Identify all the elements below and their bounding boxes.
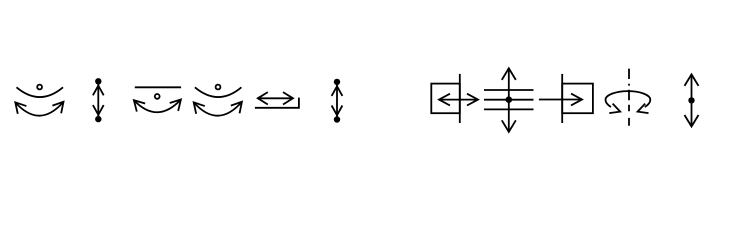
symbol 8 vertical arrow xyxy=(508,68,510,132)
dot-arrow symbol 2 up head xyxy=(93,86,104,96)
symbol 5 bracket xyxy=(255,98,299,108)
dot-arrow symbol 6 top dot xyxy=(334,79,340,85)
rocking symbol 1 cradle arc xyxy=(17,87,64,97)
symbol 8 line 2 xyxy=(484,99,534,101)
rocking symbol 4 curved double arrow xyxy=(194,102,242,116)
symbol 10 rotation loop xyxy=(606,91,651,107)
symbol 3 curved double arrow xyxy=(134,100,181,113)
symbol 11 dot xyxy=(688,97,694,103)
symbol 8 center dot xyxy=(506,96,513,103)
symbol 5 double arrow xyxy=(258,97,293,99)
symbol 7 box xyxy=(431,84,460,114)
symbol 3 top line xyxy=(135,86,181,88)
dot-arrow symbol 2 shaft xyxy=(97,81,99,119)
symbol 7 double arrow xyxy=(439,99,478,101)
rocking symbol 1 pivot circle xyxy=(37,85,42,90)
symbol 8 line 1 xyxy=(484,89,534,91)
dot-arrow symbol 2 down head xyxy=(93,105,104,115)
symbol 3 pivot circle xyxy=(155,94,160,99)
dot-arrow symbol 2 top dot xyxy=(95,78,101,84)
symbol 9 arrow xyxy=(539,99,582,101)
dot-arrow symbol 6 up head xyxy=(332,86,343,96)
symbol 9 vertical line xyxy=(561,74,563,123)
dot-arrow symbol 2 bottom dot xyxy=(95,116,101,122)
symbol 9 box xyxy=(562,84,593,114)
dot-arrow symbol 6 down head xyxy=(332,106,343,116)
rocking symbol 1 curved double arrow xyxy=(15,102,63,116)
rocking symbol 4 pivot circle xyxy=(216,85,221,90)
symbol 11 arrow shaft xyxy=(691,74,693,126)
rocking symbol 4 cradle arc xyxy=(195,87,242,97)
symbol 8 line 3 xyxy=(484,108,534,110)
dot-arrow symbol 6 shaft xyxy=(336,82,338,120)
dot-arrow symbol 6 bottom dot xyxy=(334,116,340,122)
symbol 10 axis dash-dot xyxy=(628,69,630,126)
symbol 7 vertical line xyxy=(459,74,461,123)
